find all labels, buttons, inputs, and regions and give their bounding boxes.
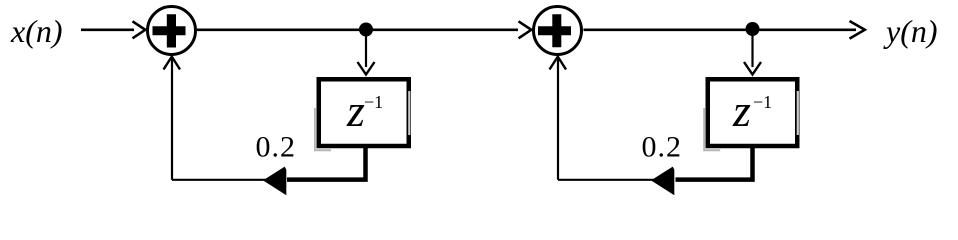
delay block Z1 left-bottom gray shadow xyxy=(314,108,331,151)
arrowhead into adder U2 xyxy=(519,21,532,38)
delay block Z2 right border gray accent xyxy=(797,91,799,135)
wire feedback 1 horizontal thin xyxy=(172,179,266,181)
delay block Z2 left-bottom gray shadow xyxy=(703,108,720,151)
wire feedback 2 vertical up to adder U2 xyxy=(557,58,559,180)
arrowhead into delay block Z2 xyxy=(744,62,761,75)
wire adder U2 to output xyxy=(584,28,857,31)
svg-text:0.2: 0.2 xyxy=(256,131,297,164)
svg-text:−1: −1 xyxy=(753,92,772,112)
delay block Z1 rectangle xyxy=(319,79,409,146)
arrowhead feedback 2 (solid triangle) xyxy=(651,166,674,196)
adder U1 plus sign xyxy=(153,14,186,47)
delay block Z1 right border gray accent xyxy=(408,91,410,135)
wire adder U1 to adder U2 xyxy=(197,28,518,31)
node junction dot 1 xyxy=(359,23,373,37)
arrowhead into delay block Z1 xyxy=(358,62,375,75)
svg-text:z: z xyxy=(732,85,751,136)
arrowhead output xyxy=(850,21,865,39)
delay block Z2 rectangle xyxy=(708,79,798,146)
wire feedback 1 vertical up to adder U1 xyxy=(171,58,173,180)
arrowhead feedback 1 corner notch xyxy=(283,161,288,170)
adder U2 circle xyxy=(534,7,582,55)
arrowhead feedback 2 into adder U2 xyxy=(550,57,567,70)
arrowhead feedback 1 (solid triangle) xyxy=(263,166,286,196)
svg-text:x(n): x(n) xyxy=(10,13,63,49)
wire feedback 2 horizontal thin xyxy=(558,179,654,181)
wire delay Z2 output down-left (thick) xyxy=(676,146,753,180)
svg-text:y(n): y(n) xyxy=(883,13,938,49)
wire node 2 down to delay block Z2 xyxy=(751,31,753,67)
wire node 1 down to delay block Z1 xyxy=(365,31,367,67)
arrowhead feedback 1 into adder U1 xyxy=(164,57,181,70)
svg-text:z: z xyxy=(346,85,365,136)
node junction dot 2 xyxy=(746,22,760,36)
arrowhead feedback 2 corner notch xyxy=(671,161,676,170)
wire delay Z1 output down-left (thick) xyxy=(287,146,366,180)
adder U1 circle xyxy=(148,7,196,55)
svg-text:−1: −1 xyxy=(364,92,383,112)
arrowhead input into adder U1 xyxy=(133,21,146,38)
svg-text:0.2: 0.2 xyxy=(642,131,683,164)
wire input to adder U1 xyxy=(81,28,134,31)
adder U2 plus sign xyxy=(538,14,571,47)
